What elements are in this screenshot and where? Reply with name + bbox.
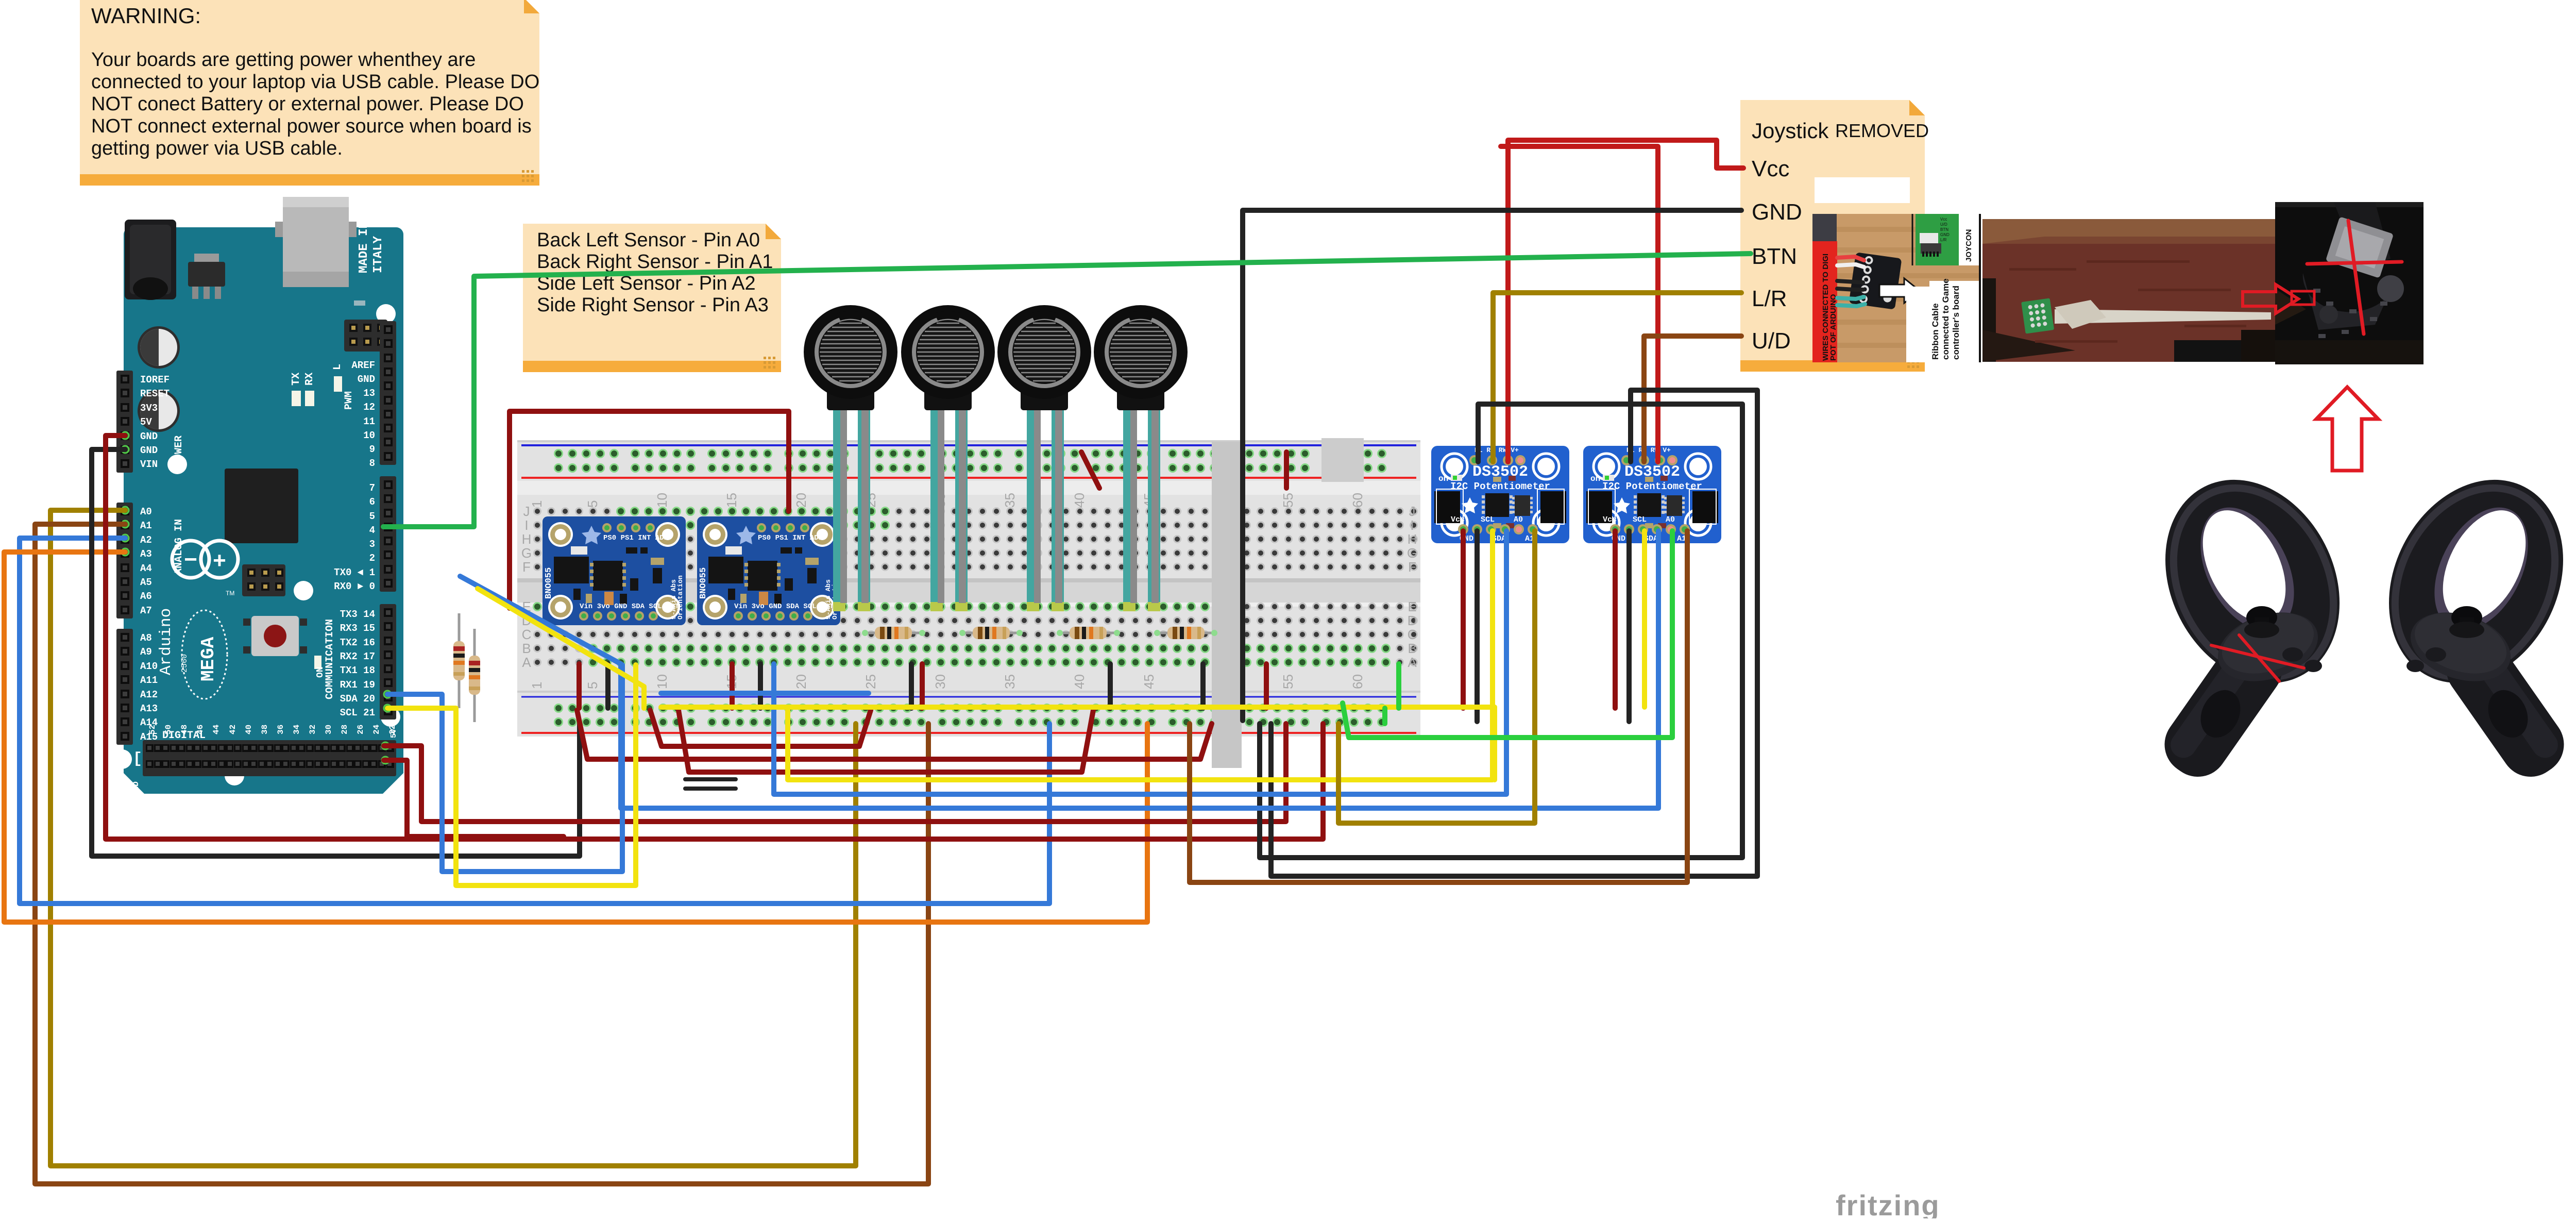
svg-text:REMOVED: REMOVED	[1835, 120, 1929, 141]
svg-text:SCL 21: SCL 21	[340, 707, 375, 718]
svg-text:U/D: U/D	[1752, 328, 1791, 354]
svg-text:RESET: RESET	[140, 388, 170, 399]
svg-text:RX: RX	[304, 372, 316, 386]
svg-text:51: 51	[164, 794, 173, 804]
svg-text:10: 10	[654, 493, 670, 508]
svg-text:47: 47	[196, 794, 205, 804]
svg-text:52: 52	[148, 725, 157, 734]
svg-text:4: 4	[369, 525, 375, 536]
svg-text:10: 10	[363, 430, 375, 441]
svg-text:I2C Potentiometer: I2C Potentiometer	[1602, 481, 1702, 492]
svg-text:A10: A10	[140, 661, 158, 672]
svg-text:Ribbon Cable: Ribbon Cable	[1930, 303, 1940, 360]
svg-text:U/D: U/D	[1940, 222, 1947, 227]
svg-text:GND: GND	[140, 445, 158, 456]
svg-text:A8: A8	[140, 632, 152, 644]
svg-text:45: 45	[212, 794, 221, 804]
svg-text:A11: A11	[140, 675, 158, 686]
svg-text:connected to your laptop via U: connected to your laptop via USB cable. …	[91, 71, 539, 93]
svg-text:24: 24	[372, 724, 381, 734]
svg-text:2560: 2560	[180, 654, 189, 673]
svg-text:RX2 17: RX2 17	[340, 651, 375, 662]
svg-text:36: 36	[276, 725, 285, 734]
svg-text:AREF: AREF	[351, 360, 375, 371]
svg-text:A1: A1	[140, 520, 152, 531]
svg-text:37: 37	[276, 794, 285, 804]
svg-text:RX0 ► 0: RX0 ► 0	[334, 581, 375, 592]
svg-text:31: 31	[324, 794, 333, 804]
svg-text:60: 60	[1350, 674, 1365, 689]
svg-text:COMMUNICATION: COMMUNICATION	[324, 619, 336, 699]
svg-text:Vcc: Vcc	[1603, 515, 1617, 524]
svg-text:A3: A3	[140, 548, 152, 560]
svg-text:3: 3	[369, 539, 375, 550]
svg-text:ANALOG IN: ANALOG IN	[173, 519, 185, 575]
svg-text:5: 5	[585, 682, 600, 689]
svg-text:35: 35	[1002, 674, 1018, 689]
svg-text:33: 33	[308, 794, 317, 804]
svg-text:49: 49	[180, 794, 189, 804]
svg-text:44: 44	[212, 724, 221, 734]
svg-text:on: on	[1590, 474, 1600, 483]
svg-text:MEGA: MEGA	[198, 637, 219, 681]
svg-text:2: 2	[369, 553, 375, 564]
svg-text:G: G	[521, 545, 532, 561]
svg-text:−: −	[184, 547, 197, 572]
svg-text:GND: GND	[1940, 232, 1950, 237]
svg-text:TM: TM	[226, 590, 234, 597]
svg-text:J: J	[523, 504, 530, 519]
svg-text:9: 9	[369, 444, 375, 455]
svg-text:40: 40	[1072, 674, 1087, 689]
svg-text:I: I	[524, 517, 528, 533]
svg-text:32: 32	[308, 725, 317, 734]
svg-text:TX1 18: TX1 18	[340, 665, 375, 676]
svg-text:Arduino: Arduino	[157, 608, 175, 675]
svg-text:5V: 5V	[140, 416, 152, 428]
svg-text:VIN: VIN	[140, 459, 158, 470]
svg-text:42: 42	[228, 725, 238, 734]
svg-text:40: 40	[1072, 493, 1087, 508]
svg-text:H: H	[1408, 531, 1417, 547]
svg-text:Vcc: Vcc	[1451, 515, 1465, 524]
svg-text:A12: A12	[140, 689, 158, 700]
svg-text:55: 55	[1280, 493, 1296, 508]
svg-text:GND: GND	[140, 431, 158, 442]
svg-text:B: B	[1408, 641, 1416, 656]
svg-text:TX3 14: TX3 14	[340, 609, 375, 620]
svg-text:NOT connect external power sou: NOT connect external power source when b…	[91, 115, 532, 137]
svg-text:I2C Potentiometer: I2C Potentiometer	[1450, 481, 1550, 492]
svg-text:53: 53	[148, 794, 157, 804]
svg-text:BNO055: BNO055	[699, 567, 708, 599]
svg-text:Vcc: Vcc	[1940, 217, 1947, 222]
svg-text:20: 20	[793, 674, 809, 689]
svg-text:Side Right Sensor - Pin A3: Side Right Sensor - Pin A3	[537, 294, 769, 316]
svg-text:A13: A13	[140, 703, 158, 714]
svg-text:A4: A4	[140, 563, 152, 574]
svg-text:GND: GND	[1752, 199, 1802, 225]
svg-text:A: A	[1408, 655, 1417, 670]
svg-text:TX0 ◄ 1: TX0 ◄ 1	[334, 567, 375, 578]
svg-text:5: 5	[585, 500, 600, 508]
svg-text:48: 48	[180, 725, 189, 734]
svg-text:L/R: L/R	[1752, 286, 1787, 311]
svg-text:30: 30	[324, 725, 333, 734]
svg-text:5: 5	[369, 511, 375, 522]
svg-text:GND: GND	[131, 781, 141, 796]
svg-text:C: C	[1408, 627, 1417, 642]
svg-text:BTN: BTN	[1940, 227, 1948, 232]
svg-text:Vin 3vo GND SDA SCL RST: Vin 3vo GND SDA SCL RST	[580, 603, 679, 611]
svg-text:25: 25	[863, 674, 878, 689]
svg-text:connected to Game: connected to Game	[1941, 278, 1951, 360]
svg-text:E: E	[1408, 599, 1416, 614]
svg-text:controller's board: controller's board	[1951, 286, 1961, 360]
svg-text:13: 13	[363, 388, 375, 399]
svg-text:IOREF: IOREF	[140, 374, 170, 386]
svg-text:20: 20	[793, 493, 809, 508]
svg-text:fritzing: fritzing	[1836, 1189, 1940, 1218]
svg-text:1: 1	[529, 500, 545, 508]
svg-text:12: 12	[363, 402, 375, 413]
svg-text:C: C	[522, 627, 532, 642]
svg-text:A9: A9	[140, 646, 152, 658]
svg-text:SCL: SCL	[1633, 515, 1647, 524]
svg-text:38: 38	[260, 725, 269, 734]
svg-text:F: F	[1408, 559, 1416, 575]
svg-text:60: 60	[1350, 493, 1365, 508]
svg-text:PS0 PS1 INT ADR: PS0 PS1 INT ADR	[758, 534, 823, 542]
svg-text:34: 34	[292, 724, 301, 734]
svg-text:RX3 15: RX3 15	[340, 623, 375, 634]
svg-text:GND: GND	[358, 374, 375, 385]
svg-text:Vcc: Vcc	[1752, 156, 1789, 181]
svg-text:NOT conect Battery or external: NOT conect Battery or external power. Pl…	[91, 93, 524, 115]
svg-text:A6: A6	[140, 591, 152, 602]
svg-text:40: 40	[244, 725, 253, 734]
svg-text:A0: A0	[140, 506, 152, 517]
svg-text:TX2 16: TX2 16	[340, 637, 375, 648]
svg-text:7: 7	[369, 482, 375, 494]
svg-text:3V3: 3V3	[140, 403, 158, 414]
svg-text:23: 23	[388, 794, 397, 804]
svg-text:F: F	[522, 559, 531, 575]
svg-text:BTN: BTN	[1752, 244, 1797, 269]
svg-text:on: on	[1438, 474, 1448, 483]
svg-text:TX: TX	[291, 372, 302, 386]
svg-text:26: 26	[356, 725, 365, 734]
svg-text:15: 15	[724, 493, 739, 508]
svg-text:G: G	[1407, 545, 1417, 561]
svg-text:H: H	[522, 531, 532, 547]
svg-text:30: 30	[933, 674, 948, 689]
svg-text:RX1 19: RX1 19	[340, 679, 375, 691]
svg-text:11: 11	[363, 416, 375, 427]
svg-text:55: 55	[1280, 674, 1296, 689]
svg-text:35: 35	[1002, 493, 1018, 508]
svg-text:POWER: POWER	[173, 436, 185, 466]
svg-text:MADE IN: MADE IN	[357, 221, 371, 273]
svg-text:BNO055: BNO055	[544, 567, 554, 599]
svg-text:[: [	[133, 750, 142, 768]
svg-text:Vin 3vo GND SDA SCL RST: Vin 3vo GND SDA SCL RST	[734, 603, 834, 611]
svg-text:Orientation: Orientation	[676, 575, 684, 620]
svg-text:28: 28	[340, 725, 349, 734]
svg-text:5V: 5V	[389, 729, 398, 738]
svg-text:10: 10	[654, 674, 670, 689]
svg-text:A7: A7	[140, 605, 152, 616]
svg-text:J: J	[1409, 504, 1416, 519]
svg-text:Your boards are getting power: Your boards are getting power whenthey a…	[91, 49, 476, 71]
svg-text:RL RH RW V+: RL RH RW V+	[1475, 446, 1519, 454]
svg-text:SDA 20: SDA 20	[340, 693, 375, 705]
svg-text:A0: A0	[1666, 515, 1675, 524]
svg-text:43: 43	[228, 794, 238, 804]
svg-text:L/R: L/R	[1940, 238, 1947, 242]
svg-text:D: D	[1408, 613, 1417, 628]
svg-text:Back Left Sensor - Pin A0: Back Left Sensor - Pin A0	[537, 229, 760, 251]
svg-text:PS0 PS1 INT ADR: PS0 PS1 INT ADR	[603, 534, 669, 542]
svg-text:1: 1	[529, 682, 545, 689]
svg-text:ITALY: ITALY	[371, 236, 385, 273]
svg-text:27: 27	[356, 794, 365, 804]
svg-text:A5: A5	[140, 577, 152, 588]
svg-text:35: 35	[292, 794, 301, 804]
svg-text:L: L	[332, 364, 344, 370]
svg-text:6: 6	[369, 496, 375, 508]
svg-text:25: 25	[372, 794, 381, 804]
svg-text:PWM: PWM	[343, 391, 355, 410]
svg-text:39: 39	[260, 794, 269, 804]
svg-text:45: 45	[1141, 674, 1157, 689]
svg-text:I: I	[1410, 517, 1414, 533]
svg-text:JOYCON: JOYCON	[1964, 229, 1973, 262]
svg-text:Joystick: Joystick	[1752, 119, 1829, 143]
svg-text:B: B	[522, 641, 531, 656]
svg-text:A0: A0	[1514, 515, 1523, 524]
svg-text:50: 50	[164, 725, 173, 734]
svg-text:WARNING:: WARNING:	[91, 4, 201, 28]
svg-text:SCL: SCL	[1481, 515, 1495, 524]
svg-text:8: 8	[369, 458, 375, 469]
svg-text:46: 46	[196, 725, 205, 734]
svg-text:getting power via USB cable.: getting power via USB cable.	[91, 138, 343, 159]
svg-text:A2: A2	[140, 534, 152, 546]
svg-text:A: A	[522, 655, 531, 670]
svg-text:29: 29	[340, 794, 349, 804]
svg-text:41: 41	[244, 794, 253, 804]
svg-text:+: +	[213, 548, 226, 573]
